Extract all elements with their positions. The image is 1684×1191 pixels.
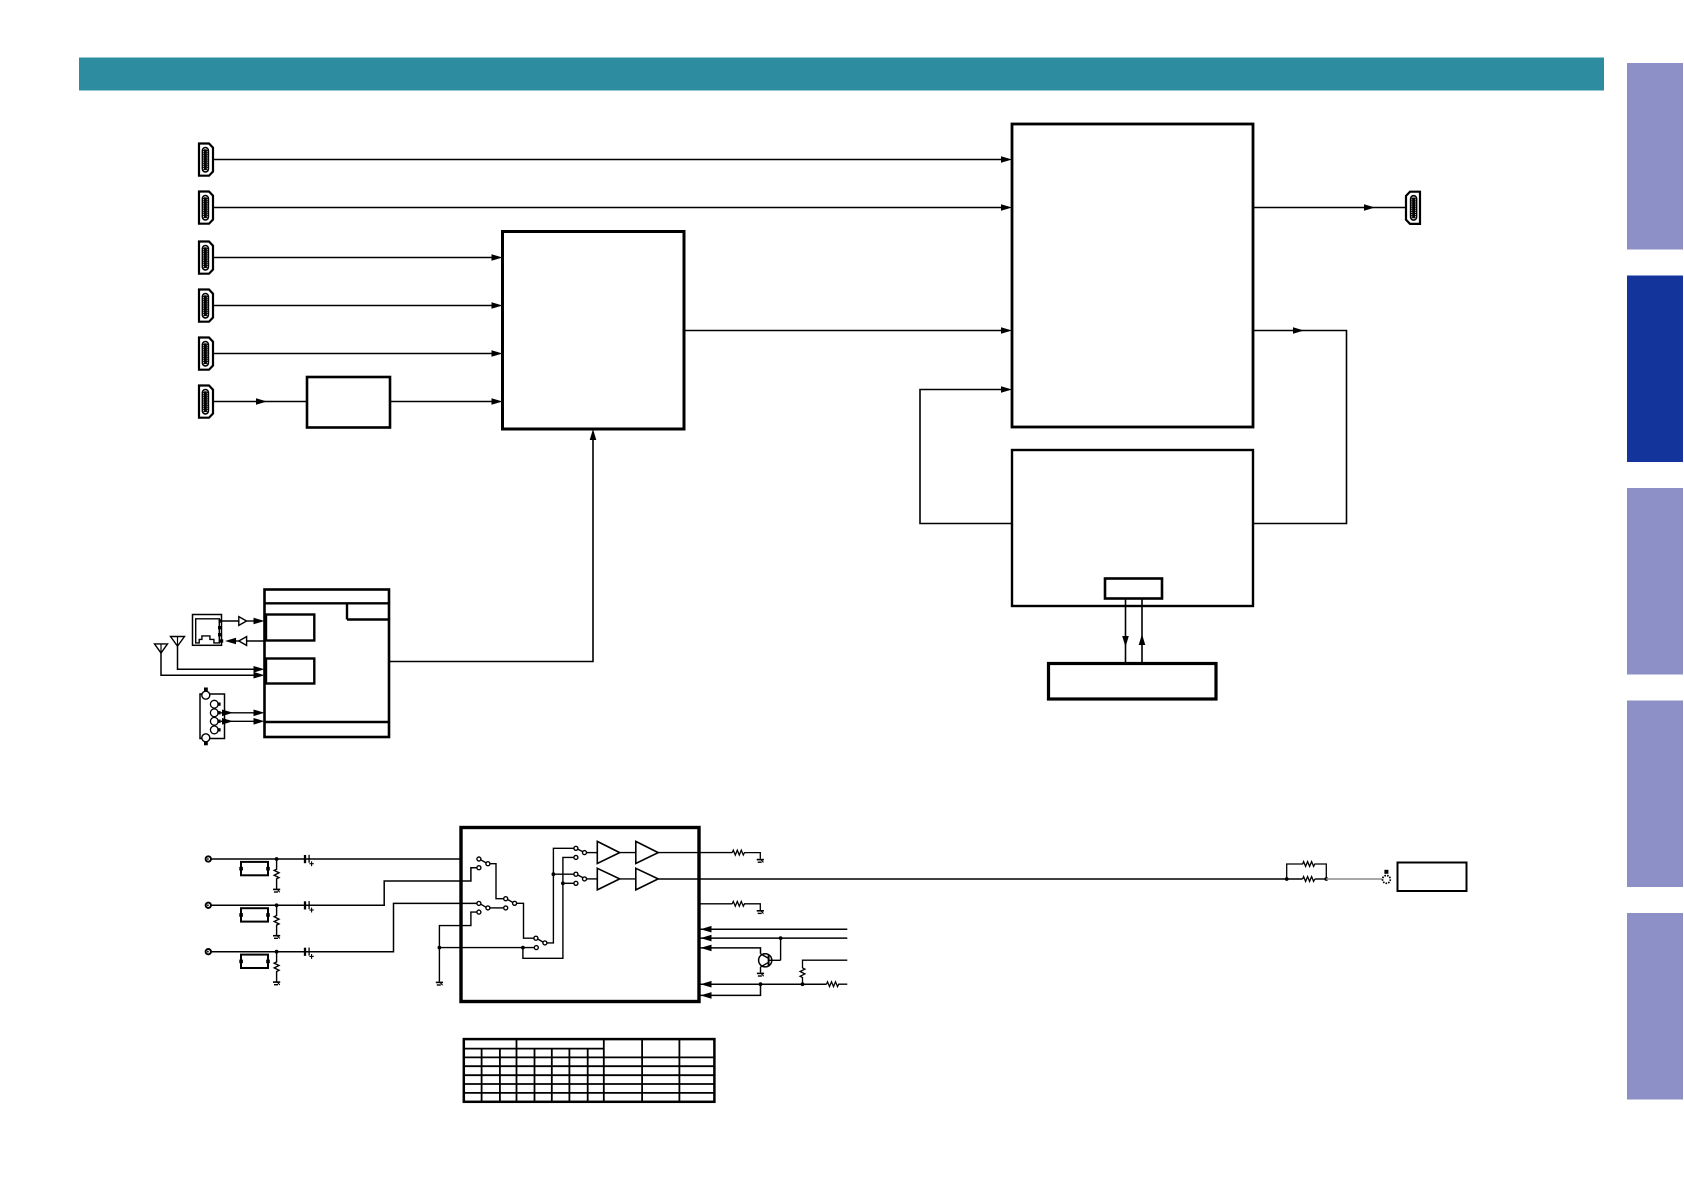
B6 inner box 1 (LAN PHY): [266, 615, 314, 641]
ground G1: [273, 889, 280, 892]
block B6 network/tuner module: [265, 590, 390, 738]
wire SW-B common to SW-C: [490, 907, 504, 909]
node row3: [275, 950, 279, 954]
transistor Q1: [759, 938, 781, 973]
wire switch IC to SoC: [684, 327, 1012, 334]
block B4 inner port: [1105, 579, 1162, 599]
wire J6 to front block: [214, 398, 307, 405]
wire antenna terminal a to B6: [221, 710, 265, 717]
resistor R6 series: [827, 982, 848, 987]
arrow ANT1 into B6: [254, 672, 265, 679]
wire buffer to B6: [247, 618, 265, 625]
jack J12 audio in 3: [206, 949, 211, 954]
sidebar tab 5: [1627, 913, 1683, 1100]
node select to SW-F: [552, 872, 556, 876]
sidebar tab 4: [1627, 701, 1683, 888]
B6 top-right sub box: [347, 603, 389, 619]
switch SW-F: [574, 872, 587, 885]
node emitter net: [759, 982, 763, 986]
resistor R1 shunt: [274, 859, 279, 889]
resistor R2 shunt: [274, 905, 279, 935]
wire SW-A common down: [490, 864, 504, 899]
op-amp A3: [597, 868, 619, 890]
switch SW-A: [477, 857, 490, 870]
wire antenna terminal b to B6: [221, 718, 265, 725]
wire divider segments: [1287, 878, 1327, 880]
B6 top band line: [265, 602, 390, 604]
resistor R5: [732, 901, 760, 910]
arrow ANT2 into B6: [254, 666, 265, 673]
node row1: [275, 857, 279, 861]
block B4 video processor: [1012, 450, 1253, 606]
connector J6 HDMI IN 6: [199, 386, 213, 418]
ground G3: [273, 982, 280, 985]
jack J11 audio in 2: [206, 903, 211, 908]
wire B1 to switch IC: [390, 398, 503, 405]
wire SW-B throw2 to mute net: [439, 912, 477, 982]
ground G5: [757, 860, 764, 863]
capacitor C2: [305, 901, 314, 912]
connector J4 HDMI IN 4: [199, 290, 213, 322]
node headphone divider right: [1324, 877, 1328, 881]
component Z2: [239, 908, 270, 921]
wire mute net horizontal: [439, 947, 534, 949]
antenna ANT1: [155, 644, 260, 675]
connector J8 LAN jack: [193, 615, 224, 646]
connector J3 HDMI IN 3: [199, 242, 213, 274]
buffer LAN tx: [239, 617, 247, 626]
wire control 2 into U10: [700, 935, 847, 942]
wire J3 to switch IC: [214, 254, 503, 261]
wire collector into U10: [700, 945, 761, 954]
connector J5 HDMI IN 5: [199, 338, 213, 370]
block U10 audio selector/volume IC: [461, 828, 699, 1002]
wire out1 load: [699, 852, 732, 854]
wire to headphone jack: [1326, 878, 1382, 880]
resistor R3 shunt: [274, 952, 279, 982]
wire LAN rx from B6: [247, 640, 265, 642]
block B7 headphone board: [1398, 863, 1467, 892]
resistor R7 pullup: [800, 960, 847, 984]
connector J9 antenna terminal: [200, 688, 225, 746]
wire J1 to SoC: [214, 156, 1012, 163]
sidebar tab 2 (active): [1627, 276, 1683, 463]
wire A4 out (headphone line): [658, 878, 1286, 880]
wire SW-C common to SW-D: [517, 903, 534, 938]
B6 inner box 2 (RF front): [266, 659, 314, 684]
ground G4: [436, 982, 443, 985]
wire SoC right loop to B4: [1253, 327, 1347, 523]
resistor R8 upper: [1287, 862, 1327, 879]
node mute branch: [521, 946, 525, 950]
wire select to SW-F throw1: [553, 873, 574, 875]
ground G6: [757, 911, 764, 914]
wire audio in 2: [211, 868, 477, 906]
component Z3: [239, 955, 270, 968]
wire control 3 into U10: [700, 981, 827, 988]
ground G7: [757, 973, 764, 976]
wire J5 to switch IC: [214, 350, 503, 357]
block B2 HDMI switch IC: [503, 232, 685, 430]
sidebar tab 1: [1627, 63, 1683, 250]
sidebar tab 3: [1627, 488, 1683, 675]
op-amp A2: [636, 841, 658, 863]
antenna ANT2: [171, 637, 260, 670]
wire LAN tx: [222, 620, 239, 622]
node mute to SW-F: [561, 881, 565, 885]
wire SW-F to amp A3: [587, 878, 598, 880]
header bar: [79, 58, 1604, 91]
wire rx buffer to LAN jack: [225, 638, 239, 645]
wire SW-E to amp A1: [587, 852, 598, 854]
wire out2 load: [699, 903, 732, 905]
block B1 (front HDMI buffer): [307, 377, 390, 428]
block B3 main SoC: [1012, 124, 1253, 427]
jack J10 audio in 1: [206, 856, 211, 861]
wire A3 to A4: [620, 878, 636, 880]
wire memory to B4 (up): [1139, 599, 1146, 664]
wire control 1 into U10: [700, 926, 847, 933]
switch SW-C: [504, 897, 517, 910]
node headphone divider left: [1285, 877, 1289, 881]
wire audio in 1: [211, 858, 461, 860]
B6 bottom band line: [265, 721, 390, 723]
node mute net: [438, 946, 442, 950]
wire mute to SW-F throw2: [563, 882, 574, 884]
wire B4 to memory (down): [1122, 599, 1129, 664]
wire J4 to switch IC: [214, 302, 503, 309]
switch SW-D: [534, 936, 547, 949]
node base net: [779, 936, 783, 940]
op-amp A4: [636, 868, 658, 890]
node R7 tap: [801, 982, 805, 986]
wire control 4 into U10: [700, 984, 761, 999]
block B5 memory: [1049, 664, 1217, 700]
ground G2: [273, 936, 280, 939]
connector J7 HDMI OUT: [1406, 192, 1420, 224]
wire A1 to A2: [620, 852, 636, 854]
resistor R4: [732, 850, 760, 859]
table: parts list grid: [464, 1039, 715, 1102]
buffer LAN rx: [239, 637, 247, 646]
capacitor C3: [305, 948, 314, 959]
connector J2 HDMI IN 2: [199, 192, 213, 224]
wire SoC to HDMI OUT: [1253, 204, 1406, 211]
jack J13 headphone: [1383, 870, 1391, 884]
switch SW-B: [477, 901, 490, 914]
connector J1 HDMI IN 1: [199, 144, 213, 176]
wire mute branch up: [523, 857, 574, 958]
wire SW-D common up: [547, 848, 574, 943]
wire J2 to SoC: [214, 204, 1012, 211]
node row2: [275, 903, 279, 907]
switch SW-E: [574, 846, 587, 859]
wire A2 out: [658, 852, 699, 854]
resistor R9 series: [1303, 877, 1315, 882]
wire audio in 3: [211, 903, 477, 951]
component Z1: [239, 862, 270, 875]
capacitor C1: [305, 855, 314, 866]
op-amp A1: [597, 841, 619, 863]
wire B4 left loop to SoC: [920, 386, 1012, 523]
wire B6 to switch IC: [389, 429, 596, 662]
